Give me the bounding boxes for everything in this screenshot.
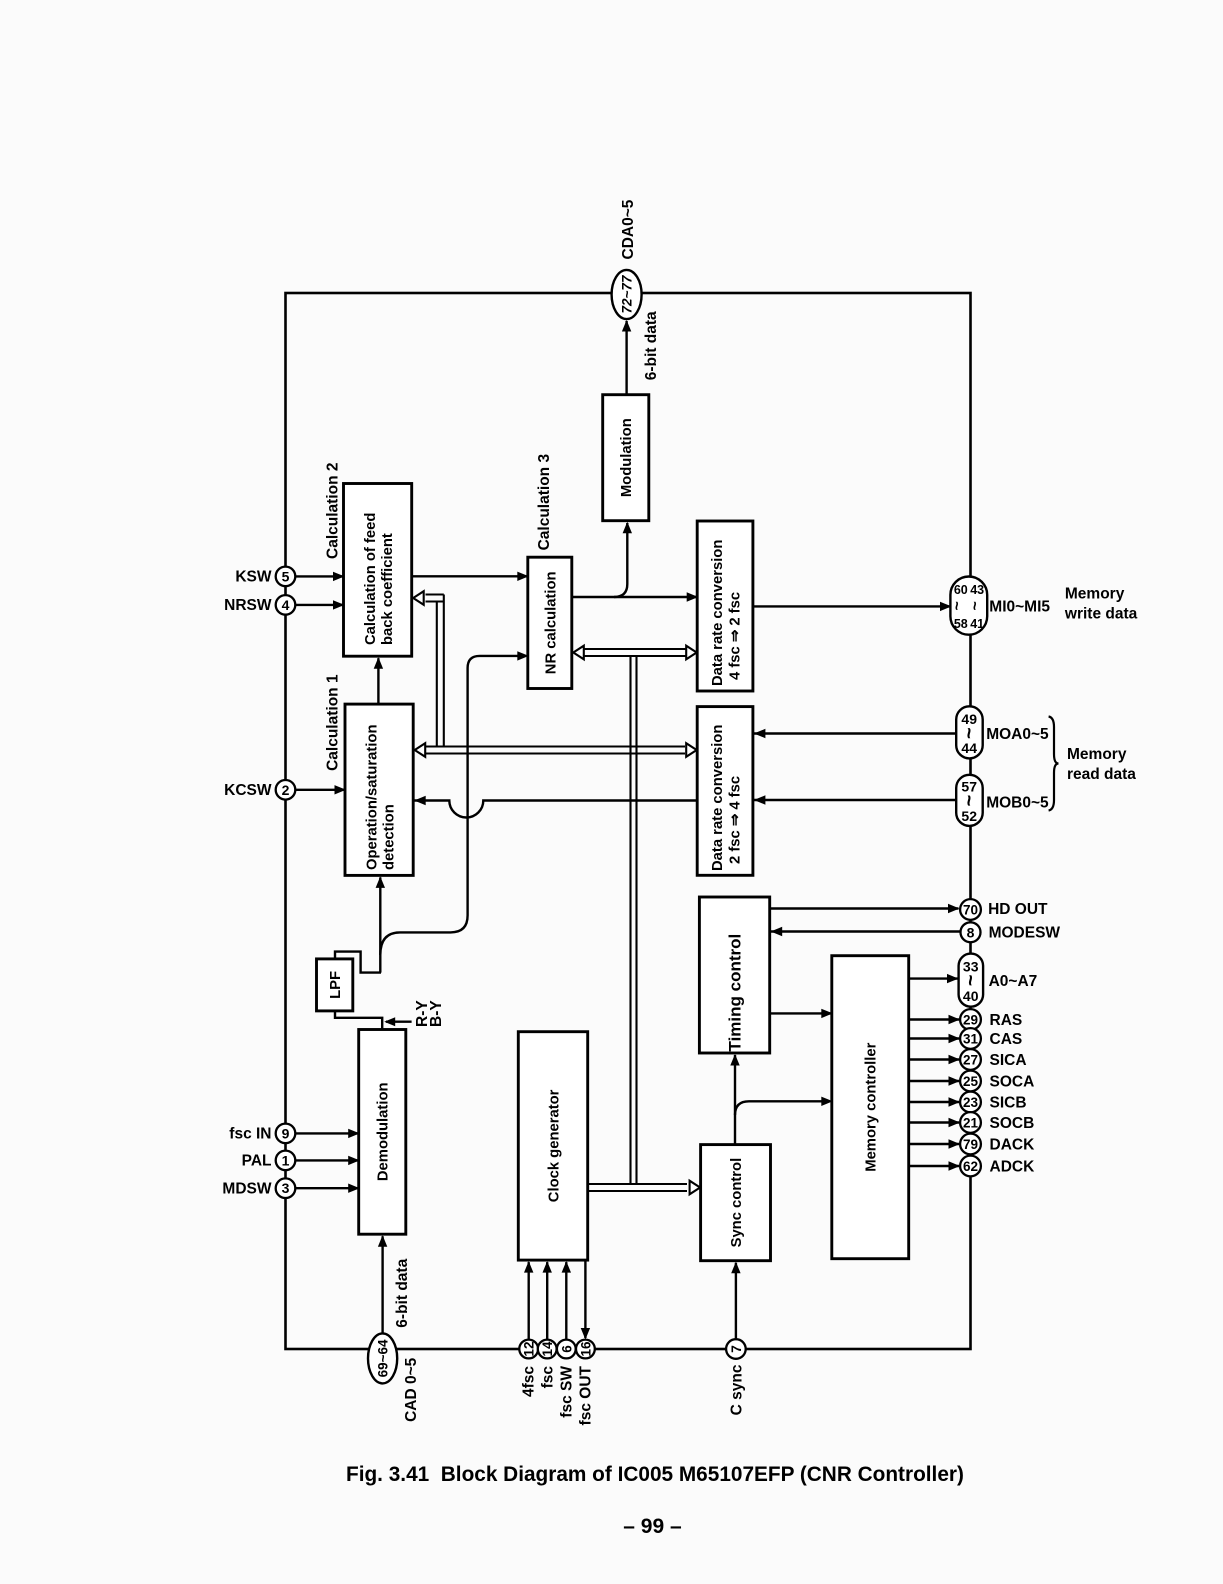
svg-text:72~77: 72~77	[620, 274, 635, 313]
wire: Sync control to Timing control, branch to Memory controller	[734, 1055, 736, 1145]
svg-text:4 fsc ⇒ 2 fsc: 4 fsc ⇒ 2 fsc	[728, 592, 744, 680]
pins 60~58,43~41 MI0-MI5 stadium	[950, 577, 987, 635]
svg-text:MI0~MI5: MI0~MI5	[989, 599, 1050, 616]
pin 21 SOCB	[960, 1112, 981, 1133]
svg-text:41: 41	[970, 617, 984, 631]
block: Clock generator	[518, 1032, 587, 1260]
svg-text:ADCK: ADCK	[990, 1159, 1036, 1176]
wire: Memory controller to SICA pin	[909, 1058, 959, 1060]
wire: Memory controller to RAS pin	[909, 1018, 959, 1020]
wire: PAL pin1 to Demodulation	[295, 1159, 359, 1161]
pin 16 fsc OUT	[576, 1340, 595, 1359]
wire: KSW pin5 to Calculation2	[295, 575, 344, 577]
pin 29 RAS	[960, 1009, 981, 1030]
wire: MDSW pin3 to Demodulation	[295, 1187, 359, 1189]
svg-text:Calculation 3: Calculation 3	[536, 454, 553, 551]
wire: Clock generator to fsc OUT pin16	[584, 1260, 586, 1338]
wire: NRSW pin4 to Calculation2	[295, 604, 344, 606]
wire: Memory controller to SOCB pin	[909, 1121, 959, 1123]
wire: Memory controller to ADCK pin	[909, 1165, 959, 1167]
svg-text:Calculation of feed: Calculation of feed	[363, 513, 379, 645]
svg-text:MODESW: MODESW	[989, 925, 1061, 942]
svg-text:79: 79	[963, 1137, 978, 1152]
wire: Memory controller to SOCA pin	[909, 1080, 959, 1082]
svg-text:CAD 0~5: CAD 0~5	[403, 1357, 420, 1422]
wire: MOA pins to Data rate conversion2	[754, 732, 956, 734]
wire: Memory controller to SICB pin	[909, 1101, 959, 1103]
svg-text:LPF: LPF	[328, 971, 344, 999]
pin 6 fsc SW	[557, 1340, 576, 1359]
wire: 4fsc pin12 to Clock generator	[528, 1262, 530, 1340]
svg-text:C sync: C sync	[729, 1364, 746, 1415]
svg-text:29: 29	[963, 1013, 978, 1028]
svg-text:52: 52	[961, 808, 977, 824]
wire: fsc SW pin6 to Clock generator	[565, 1262, 567, 1340]
svg-text:CDA0~5: CDA0~5	[620, 199, 637, 259]
pin 8 MODESW	[961, 922, 981, 942]
pin 12 4fsc	[519, 1340, 538, 1359]
wire: Memory controller to CAS pin	[909, 1037, 959, 1039]
svg-text:8: 8	[967, 924, 975, 940]
svg-text:Memory: Memory	[1065, 586, 1125, 603]
svg-text:– 99 –: – 99 –	[623, 1515, 682, 1538]
svg-text:MDSW: MDSW	[222, 1181, 271, 1198]
svg-text:SICB: SICB	[990, 1095, 1027, 1112]
brace memory read data	[1049, 717, 1059, 811]
svg-text:Sync control: Sync control	[729, 1158, 745, 1248]
svg-text:16: 16	[578, 1341, 593, 1357]
wire: Data rate conversion2 to Operation/saturation (with hop)	[414, 801, 697, 818]
svg-text:~: ~	[959, 795, 981, 807]
svg-text:Demodulation: Demodulation	[376, 1082, 392, 1181]
svg-text:14: 14	[540, 1341, 555, 1357]
block: Modulation	[603, 395, 649, 521]
svg-text:NR calculation: NR calculation	[543, 571, 559, 674]
svg-text:Calculation 1: Calculation 1	[325, 674, 342, 771]
pins 72~77 CDA ellipse	[612, 270, 642, 319]
svg-text:RAS: RAS	[990, 1012, 1023, 1029]
wire: Data rate conversion1 to MI pins	[753, 605, 952, 607]
svg-text:2: 2	[282, 782, 290, 798]
svg-text:70: 70	[963, 903, 978, 918]
pin 79 DACK	[960, 1134, 981, 1155]
svg-text:62: 62	[963, 1159, 978, 1174]
block: Operation/saturation detection	[345, 704, 413, 875]
bus: hollow branch up to Calculation2	[436, 602, 438, 747]
svg-text:A0~A7: A0~A7	[989, 973, 1038, 990]
svg-text:Calculation 2: Calculation 2	[325, 463, 342, 559]
svg-text:49: 49	[961, 711, 977, 727]
block: Calculation of feed back coefficient	[344, 484, 412, 657]
svg-text:31: 31	[963, 1032, 979, 1047]
svg-text:21: 21	[963, 1116, 979, 1131]
pin 2 KCSW	[276, 780, 296, 800]
svg-text:7: 7	[728, 1345, 744, 1353]
block: Memory controller	[832, 956, 909, 1259]
svg-text:Fig. 3.41 Block Diagram of IC: Fig. 3.41 Block Diagram of IC005 M65107E…	[346, 1463, 964, 1486]
svg-text:33: 33	[963, 959, 979, 975]
svg-text:fsc OUT: fsc OUT	[578, 1365, 595, 1425]
bus: vertical hollow line down the middle	[629, 656, 631, 1184]
wire: LPF bottom to Demodulation top	[335, 1011, 382, 1030]
pin 70 HD OUT	[960, 899, 981, 920]
block: LPF	[317, 959, 353, 1011]
wire: NR output to Modulation (branch up) and to Data rate conversion 1	[572, 596, 697, 598]
bus: NR calculation <-> Data rate conversion1 (hollow double arrow)	[584, 648, 686, 650]
wire: LPF top step	[335, 952, 381, 973]
svg-text:69~64: 69~64	[376, 1339, 391, 1377]
pin 31 CAS	[960, 1028, 981, 1049]
wire: Memory controller to A0-A7 pins	[909, 977, 958, 979]
pins 33~40 A0-A7 stadium	[959, 954, 984, 1007]
svg-text:43: 43	[970, 583, 984, 597]
pin 7 C sync	[726, 1339, 746, 1359]
svg-text:~: ~	[959, 727, 981, 739]
pins 49~44 MOA stadium	[956, 706, 983, 758]
svg-text:9: 9	[282, 1125, 290, 1141]
svg-text:40: 40	[963, 988, 979, 1004]
bus: Clock generator to Sync control (hollow)	[588, 1183, 687, 1185]
svg-text:4fsc: 4fsc	[521, 1366, 538, 1397]
wire: Timing control to HD OUT pin70	[770, 907, 959, 909]
svg-text:MOA0~5: MOA0~5	[986, 726, 1049, 743]
svg-text:~: ~	[949, 601, 966, 610]
svg-text:CAS: CAS	[990, 1031, 1023, 1048]
block: Timing control	[699, 897, 769, 1053]
svg-text:KCSW: KCSW	[224, 782, 272, 799]
wire: fsc IN pin9 to Demodulation	[295, 1132, 359, 1134]
svg-text:NRSW: NRSW	[224, 597, 272, 614]
wire: Timing control to Memory controller	[770, 1012, 832, 1014]
svg-text:Modulation: Modulation	[619, 418, 635, 497]
wire: Calculation1 to Calculation2 vertical arrow	[377, 658, 379, 704]
svg-text:58: 58	[954, 617, 968, 631]
wire: R-Y B-Y input arrow	[386, 1021, 412, 1023]
svg-text:Operation/saturation: Operation/saturation	[365, 724, 381, 870]
pin 3 MDSW	[276, 1178, 296, 1198]
svg-text:SOCA: SOCA	[990, 1074, 1035, 1091]
svg-text:1: 1	[282, 1152, 290, 1168]
svg-text:3: 3	[282, 1180, 290, 1196]
pin 4 NRSW	[276, 595, 296, 615]
pin 62 ADCK	[960, 1156, 981, 1177]
wire: C sync pin7 to Sync control	[735, 1263, 737, 1340]
wire: Memory controller to DACK pin	[909, 1143, 959, 1145]
svg-text:6: 6	[559, 1345, 574, 1353]
svg-text:DACK: DACK	[990, 1137, 1036, 1154]
wire: MOB pins to Data rate conversion2	[754, 799, 956, 801]
svg-text:57: 57	[961, 779, 977, 795]
pin 25 SOCA	[960, 1071, 981, 1092]
svg-text:Data rate conversion: Data rate conversion	[710, 725, 726, 871]
svg-text:back coefficient: back coefficient	[380, 533, 396, 645]
svg-text:PAL: PAL	[242, 1153, 272, 1170]
pin 27 SICA	[960, 1049, 981, 1070]
svg-text:12: 12	[522, 1341, 537, 1356]
svg-text:read data: read data	[1067, 766, 1136, 783]
wire: Modulation to pin 72-77 6-bit data	[625, 321, 627, 395]
wire: KCSW pin2 to Calculation1	[295, 789, 345, 791]
svg-text:B-Y: B-Y	[428, 1000, 445, 1027]
svg-text:5: 5	[282, 568, 290, 584]
svg-text:27: 27	[963, 1053, 978, 1068]
svg-text:SICA: SICA	[990, 1052, 1027, 1069]
pin 9 fsc IN	[276, 1124, 296, 1144]
svg-text:23: 23	[963, 1095, 979, 1110]
block: NR calculation	[528, 557, 572, 688]
svg-text:~: ~	[960, 974, 982, 986]
svg-text:60: 60	[954, 583, 968, 597]
svg-text:fsc IN: fsc IN	[229, 1126, 271, 1143]
svg-text:write data: write data	[1064, 606, 1138, 623]
svg-text:KSW: KSW	[235, 569, 272, 586]
svg-text:25: 25	[963, 1074, 979, 1089]
pin 5 KSW	[276, 567, 296, 587]
svg-text:2 fsc ⇒ 4 fsc: 2 fsc ⇒ 4 fsc	[728, 776, 744, 864]
svg-text:Data rate conversion: Data rate conversion	[710, 540, 726, 686]
block: Sync control	[701, 1145, 771, 1261]
svg-text:6-bit data: 6-bit data	[643, 311, 660, 380]
svg-text:6-bit data: 6-bit data	[394, 1258, 411, 1327]
pin 14 fsc	[538, 1340, 557, 1359]
svg-text:Memory: Memory	[1067, 746, 1127, 763]
svg-text:MOB0~5: MOB0~5	[986, 795, 1049, 812]
svg-text:Clock generator: Clock generator	[547, 1089, 563, 1202]
pins 69~64 CAD ellipse	[368, 1333, 397, 1383]
wire: branch to NR calculation left input	[380, 656, 521, 955]
pin 1 PAL	[276, 1151, 296, 1171]
svg-text:SOCB: SOCB	[990, 1115, 1035, 1132]
pin 23 SICB	[960, 1092, 981, 1113]
svg-text:~: ~	[967, 601, 984, 610]
wire: fsc pin14 to Clock generator	[546, 1262, 548, 1340]
block: Data rate conversion 4fsc to 2fsc	[697, 521, 753, 691]
svg-text:fsc SW: fsc SW	[559, 1366, 576, 1418]
pins 57~52 MOB stadium	[956, 775, 983, 826]
block: Data rate conversion 2fsc to 4fsc	[697, 707, 753, 876]
bus: horizontal hollow line to Op/sat and Data rate conversion2	[426, 745, 686, 747]
svg-text:detection: detection	[382, 804, 398, 870]
svg-text:Timing control: Timing control	[726, 934, 745, 1052]
wire: CAD pins 69-64 to Demodulation 6-bit data	[381, 1236, 383, 1334]
svg-text:4: 4	[282, 597, 290, 613]
wire: IC package boundary	[286, 293, 971, 1349]
wire: Calculation2 output to NR calculation	[412, 575, 528, 577]
svg-text:44: 44	[961, 740, 977, 756]
svg-text:fsc: fsc	[539, 1366, 556, 1389]
wire: MODESW pin8 to Timing control	[770, 930, 961, 932]
wire: LPF junction to Operation/saturation bottom	[379, 877, 381, 972]
block: Demodulation	[359, 1030, 406, 1235]
svg-text:HD OUT: HD OUT	[988, 901, 1048, 918]
svg-text:Memory controller: Memory controller	[864, 1042, 880, 1171]
